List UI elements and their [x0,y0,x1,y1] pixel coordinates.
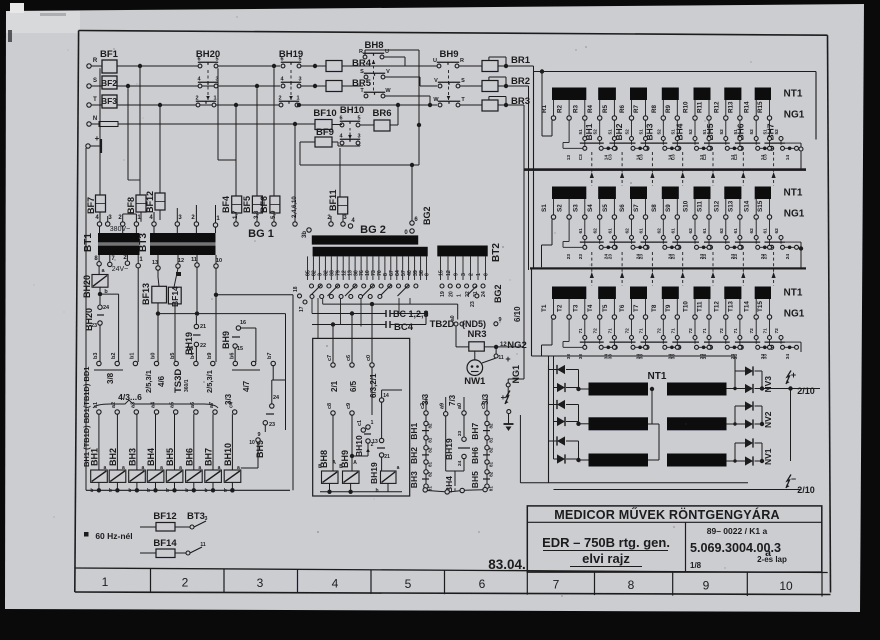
svg-text:NG1: NG1 [511,365,521,384]
svg-text:3: 3 [298,77,301,83]
wire right vertical 290 to bus [272,366,274,380]
svg-text:NT1: NT1 [784,188,803,199]
svg-text:NR3: NR3 [467,329,486,340]
svg-text:2/5,3/1: 2/5,3/1 [205,370,214,393]
relay coil BH2 [116,414,118,470]
linkage dashed arrows banks [591,152,593,186]
svg-text:81: 81 [489,437,494,443]
svg-text:24: 24 [103,305,110,311]
svg-text:BH10: BH10 [354,435,364,457]
bank 2 enclosure [529,174,811,176]
cluster left stub row1 [563,147,583,149]
svg-text:23: 23 [733,254,739,260]
resistor bar row3 group 6 [724,287,741,300]
svg-text:BF8: BF8 [126,197,136,214]
svg-text:BF12: BF12 [145,191,155,213]
svg-text:NW1: NW1 [464,376,486,387]
svg-text:BH19: BH19 [369,462,379,484]
contact group row3 6 [739,319,741,335]
svg-text:T6: T6 [619,304,626,312]
svg-text:23: 23 [457,430,463,436]
svg-text:a6: a6 [190,402,196,408]
svg-text:51: 51 [733,129,739,135]
enclosure box BH8 BH9 BH10 BH19 [313,338,410,496]
svg-text:R13: R13 [727,101,734,113]
svg-text:T10: T10 [683,301,690,312]
svg-text:71: 71 [578,328,584,334]
svg-text:23: 23 [578,254,584,260]
wire horizontal y314 [158,313,286,315]
svg-text:10: 10 [779,579,793,593]
svg-text:4/6: 4/6 [157,375,166,387]
wire BR1 to bank1 enclosure [498,65,534,67]
svg-text:71: 71 [702,328,708,334]
svg-text:21: 21 [200,324,206,330]
svg-text:a0: a0 [450,315,456,321]
svg-text:−: − [791,474,796,484]
svg-text:c4: c4 [229,401,235,408]
svg-text:b: b [204,488,207,494]
svg-text:a5: a5 [170,402,176,408]
svg-text:BF9: BF9 [316,127,334,138]
focus bolt plus [506,383,510,387]
left diode vertical ties [553,388,555,460]
svg-text:a2: a2 [111,402,117,408]
contact group row1 4 [676,120,678,136]
transformer BT2 bar [437,246,487,257]
wire b1 riser [137,268,139,362]
wire BF13 down to b0 [157,303,159,314]
svg-text:BF3: BF3 [101,96,117,106]
contact group row1 5 [708,120,710,136]
svg-text:61: 61 [702,228,708,234]
svg-text:a: a [179,465,182,471]
diode NT1 left 4 [554,421,558,423]
resistor bar row2 group 2 [598,187,616,200]
relay coil BH4 [155,414,157,470]
svg-text:51: 51 [578,129,584,135]
svg-text:52: 52 [625,129,631,135]
svg-text:S1: S1 [541,204,548,212]
svg-text:c0: c0 [366,355,372,361]
svg-text:BT1: BT1 [83,233,94,252]
title block vertical divider [685,522,687,572]
svg-text:33: 33 [763,354,769,360]
NT1 winding bars right [667,383,727,396]
contact group row1 3 [645,120,647,136]
svg-text:S10: S10 [683,200,690,212]
svg-text:6/5: 6/5 [349,380,358,392]
contact group row1 2 [613,120,615,136]
svg-text:23: 23 [91,323,97,329]
svg-text:BF11: BF11 [328,189,338,211]
svg-text:23: 23 [607,254,613,260]
svg-text:62: 62 [749,228,755,234]
legend marker 60 Hz [84,532,89,537]
wire BR5 to BH8 S [342,85,363,87]
svg-text:89– 0022 / K1 a: 89– 0022 / K1 a [707,526,768,536]
svg-text:62: 62 [719,228,725,234]
wire T to BH8 [280,96,282,105]
svg-text:a: a [198,465,201,471]
svg-text:S4: S4 [587,204,594,212]
svg-text:13: 13 [152,260,158,266]
svg-text:NT1: NT1 [784,89,803,100]
BG2 tap leads and numbers [307,256,309,280]
svg-text:62: 62 [593,228,599,234]
ground symbol [86,144,90,148]
paper lighter top-left corner [6,11,80,33]
svg-text:NV3: NV3 [763,376,773,393]
NT1 winding bars left [589,383,649,396]
contact group row1 7 [769,120,771,136]
circuit breaker BF3 [102,95,117,108]
svg-text:72: 72 [656,328,662,334]
svg-text:BH10: BH10 [340,105,364,116]
wire BH9 S to BR2 [460,85,482,87]
wire T bus [117,104,279,106]
svg-text:0: 0 [425,273,431,276]
relay coil BH3 [136,414,138,470]
resistor bar row3 group 7 [755,287,771,300]
resistor bar row1 group 2 [598,88,616,101]
resistor BR6 [374,120,390,131]
svg-text:2: 2 [278,96,281,102]
wire 11 down [196,267,198,313]
svg-text:7/3: 7/3 [448,394,457,406]
title block outer box [527,506,822,572]
a-terminal circles row [97,410,101,414]
svg-text:BF12: BF12 [153,511,176,522]
BT2 tap circles [440,284,444,288]
contact BH19 2-1 [279,103,283,107]
svg-text:b: b [90,488,93,494]
svg-text:23: 23 [763,254,769,260]
svg-text:S7: S7 [633,204,640,212]
svg-text:23: 23 [269,422,275,428]
bottom ruler strip line [75,568,828,573]
svg-text:BF7: BF7 [86,197,96,214]
svg-text:1: 1 [457,294,463,297]
resistor bar row1 group 6 [724,88,741,101]
svg-text:R11: R11 [697,101,704,113]
svg-text:BH9: BH9 [221,331,231,349]
svg-text:4/7: 4/7 [242,380,251,392]
fuse in N line [91,123,99,125]
svg-text:9: 9 [703,578,710,592]
wire S bus [117,85,280,87]
svg-text:8: 8 [628,578,635,592]
svg-text:T9: T9 [665,304,672,312]
right diode ties and NV labels [761,371,763,389]
svg-text:R2: R2 [557,104,564,113]
wire NR3 [455,326,457,347]
wire NG1 riser [507,387,509,396]
BG2 primary terminals [307,228,311,232]
wire BH8 W bus [385,95,430,97]
bank 3 enclosure [531,269,533,357]
svg-text:380V~: 380V~ [110,226,130,233]
wire lower loop [300,164,419,166]
svg-text:51: 51 [670,129,676,135]
resistor bar row3 group 4 [662,287,679,300]
svg-text:+: + [505,354,510,364]
svg-text:4: 4 [332,576,339,590]
BT2 tap leads and numbers [440,256,442,280]
svg-text:2/10: 2/10 [797,485,815,495]
svg-text:BH6: BH6 [184,448,194,466]
wire BR6 up [390,124,398,126]
fuse BF9 [315,137,332,147]
svg-text:W: W [385,88,391,94]
svg-text:NT1: NT1 [784,288,803,299]
svg-text:+: + [501,393,506,402]
svg-text:13: 13 [372,439,378,445]
svg-text:15: 15 [439,270,445,276]
wire BF11 riser [339,148,341,197]
svg-text:R7: R7 [633,104,640,113]
fuse BF14 [168,287,181,304]
svg-text:71: 71 [670,328,676,334]
svg-text:b5: b5 [170,353,176,359]
svg-text:72: 72 [774,328,780,334]
wire BR2 to bank2 [498,85,529,87]
svg-text:BH6: BH6 [470,447,480,464]
svg-text:b6: b6 [229,353,235,359]
svg-text:R: R [93,58,98,64]
svg-text:c8: c8 [327,403,333,409]
svg-text:T3: T3 [572,304,579,312]
svg-text:14: 14 [785,155,791,161]
contact BH10 4-3 [340,141,344,145]
output plus wire [791,388,821,390]
svg-text:19: 19 [440,291,446,297]
svg-text:+: + [95,134,100,143]
resistor BR1 [482,61,498,72]
drawing frame border [79,31,828,36]
svg-text:S8: S8 [651,204,658,212]
svg-text:N: N [93,116,97,122]
svg-text:b0: b0 [151,353,157,359]
BH10 linkage dashed [349,128,351,139]
resistor bar row3 group 2 [598,287,616,300]
diode NT1 left 2 [554,387,558,389]
svg-text:52: 52 [593,129,599,135]
svg-text:BH10: BH10 [223,443,233,466]
diode NT1 left 3 [549,404,558,406]
svg-text:52: 52 [656,129,662,135]
svg-text:72: 72 [625,328,631,334]
contact BH20 2-1 [196,103,200,107]
capacitor BC4 [385,321,387,328]
svg-text:R10: R10 [683,101,690,113]
svg-text:BH2: BH2 [409,447,419,464]
c-terminals top [331,363,335,367]
wire BF4 riser [235,107,237,196]
wire N to BF10 [200,123,315,125]
svg-text:BT3: BT3 [138,233,149,252]
svg-text:52: 52 [688,129,694,135]
resistor BR2 [482,81,498,92]
svg-text:BT2: BT2 [491,243,502,262]
resistor bar row1 group 1 [552,88,586,101]
svg-text:c7: c7 [327,355,333,361]
svg-text:S13: S13 [727,200,734,212]
svg-text:b9: b9 [207,353,213,359]
transformer BG2 secondary bar [313,247,428,257]
svg-text:5: 5 [405,577,412,591]
svg-text:C3: C3 [607,154,613,160]
diode NV pair feed 1 [727,388,746,390]
svg-text:61: 61 [733,228,739,234]
svg-text:c2: c2 [420,403,426,409]
svg-text:b3: b3 [93,353,99,359]
svg-text:13: 13 [566,155,572,161]
svg-text:B: B [318,464,322,470]
wire BF7 riser [99,68,101,195]
svg-text:R15: R15 [757,101,764,113]
svg-text:S: S [93,78,97,84]
svg-text:V: V [434,78,438,84]
BR3 bypass loop [489,96,506,98]
bank 2 left hook [551,219,553,245]
svg-text:2: 2 [182,576,189,590]
svg-text:NG1: NG1 [784,209,805,220]
svg-text:23: 23 [566,254,572,260]
contact group row2 2 [613,219,615,235]
svg-text:72: 72 [688,328,694,334]
wire bc bus [312,313,386,315]
svg-text:83.04.: 83.04. [488,557,526,572]
svg-text:82: 82 [428,447,433,453]
contact group row3 5 [708,319,710,335]
ruler dividers [150,569,152,593]
wire right riser to NR3 [523,107,525,345]
svg-text:b: b [128,488,131,494]
relay coil BH1 [98,414,100,470]
contact group row2 4 [676,219,678,235]
wire BH8 U to BH9 [384,56,405,58]
contact group row2 3 [645,219,647,235]
svg-text:72: 72 [749,328,755,334]
terminals a0 [454,322,458,326]
svg-text:R1: R1 [541,104,548,113]
contact group row3 2 [613,319,615,335]
svg-text:elvi rajz: elvi rajz [582,551,630,566]
svg-text:81: 81 [489,486,494,492]
BH20 linkage dashed [207,70,209,100]
terminal T [87,103,91,107]
svg-text:62: 62 [774,228,780,234]
svg-text:T14: T14 [744,301,751,312]
contact BH19 6-5 [281,64,285,68]
svg-text:BH7: BH7 [204,448,214,466]
svg-text:a3: a3 [130,402,136,408]
wire BF12 riser [159,107,161,193]
svg-text:C3: C3 [763,154,769,160]
resistor bar row2 group 1 [552,187,586,200]
svg-text:61: 61 [763,228,769,234]
contact group row1 6 [739,120,741,136]
svg-text:C3: C3 [639,154,645,160]
wire R bus [117,65,198,67]
svg-text:2: 2 [469,273,475,276]
contact BH19 4-3 [281,84,285,88]
svg-text:1: 1 [476,273,482,276]
svg-text:C3: C3 [670,154,676,160]
svg-text:T4: T4 [587,304,594,312]
svg-text:A: A [353,460,357,466]
svg-text:6: 6 [280,57,283,63]
svg-text:1: 1 [102,575,109,589]
svg-text:71: 71 [733,328,739,334]
svg-text:BH1: BH1 [409,423,419,440]
contact BH20 4-3 [198,84,202,88]
bank 2 right hook [781,241,801,243]
resistor bar row1 group 7 [755,88,771,101]
svg-text:1: 1 [213,96,216,102]
svg-text:3: 3 [257,576,264,590]
contact group row2 1 [584,219,586,235]
diode NV upper 1 [745,366,753,375]
svg-text:71: 71 [607,328,613,334]
svg-text:a7: a7 [209,402,215,408]
wire S mid [218,85,280,87]
svg-text:82: 82 [489,447,494,453]
terminal 11 plus [494,354,498,358]
svg-text:T13: T13 [727,301,734,312]
svg-text:BF5: BF5 [242,196,252,213]
wire BH8 V to BH9 [385,76,420,78]
wire bundle verticals [311,298,313,314]
svg-text:17: 17 [299,306,305,312]
svg-text:a: a [104,465,107,471]
wire junction y295 to right [216,294,293,296]
bank 2 bus [530,267,806,269]
svg-text:a4: a4 [151,401,157,408]
svg-text:52: 52 [774,129,780,135]
svg-text:34: 34 [785,354,791,360]
svg-text:82: 82 [428,423,433,429]
svg-text:BH7: BH7 [470,423,480,440]
svg-text:EDR – 750B rtg. gen.: EDR – 750B rtg. gen. [542,535,670,550]
svg-text:S3: S3 [572,204,579,212]
svg-text:+: + [791,370,796,380]
svg-text:82: 82 [489,423,494,429]
BR2 bypass loop [489,76,506,78]
svg-text:c3: c3 [481,403,487,409]
svg-text:BH4: BH4 [146,448,156,466]
cluster left stub row3 [563,346,583,348]
wire BF8 riser [139,66,141,195]
svg-text:BF1: BF1 [100,49,119,60]
wire 12 diag to BF14 [174,268,178,287]
svg-text:5: 5 [298,57,301,63]
wire BH10-BR6 [360,124,374,126]
svg-text:6: 6 [197,57,200,63]
svg-text:BH5: BH5 [165,448,175,466]
title block header line [527,521,822,523]
svg-text:BC4: BC4 [394,322,414,333]
svg-text:BH1: BH1 [89,448,99,466]
svg-text:5: 5 [215,57,218,63]
diode NV pair feed 2 [727,423,746,425]
cluster left stub row2 [563,246,583,248]
svg-text:BF13: BF13 [141,283,151,305]
wire left vertical to bus [85,148,87,490]
wire T lower bus [299,104,437,106]
resistor bar row2 group 5 [694,187,711,200]
